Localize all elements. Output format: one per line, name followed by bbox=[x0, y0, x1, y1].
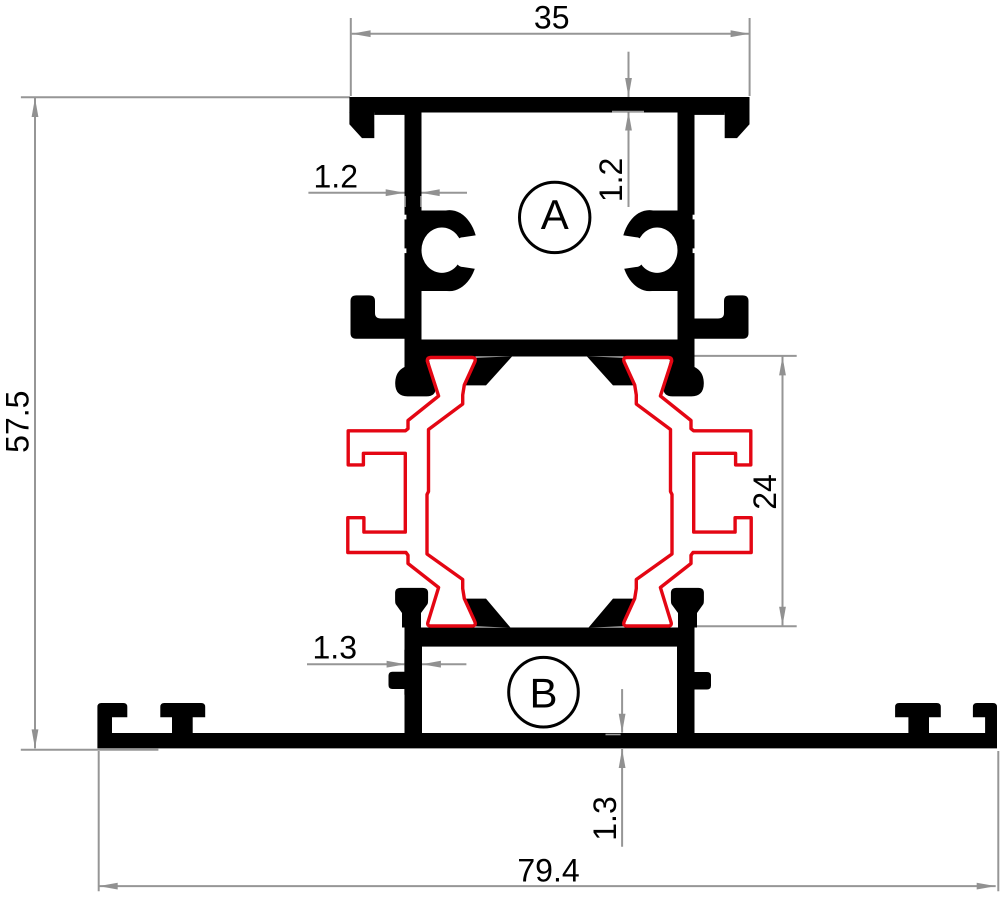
svg-text:35: 35 bbox=[534, 0, 570, 35]
svg-text:57.5: 57.5 bbox=[0, 391, 36, 453]
svg-text:1.3: 1.3 bbox=[313, 629, 357, 665]
svg-text:A: A bbox=[541, 191, 569, 238]
svg-text:1.3: 1.3 bbox=[587, 796, 623, 840]
svg-text:79.4: 79.4 bbox=[517, 853, 579, 889]
svg-text:1.2: 1.2 bbox=[314, 159, 358, 195]
svg-text:B: B bbox=[529, 669, 557, 716]
svg-text:1.2: 1.2 bbox=[593, 158, 629, 202]
svg-text:24: 24 bbox=[747, 474, 783, 510]
